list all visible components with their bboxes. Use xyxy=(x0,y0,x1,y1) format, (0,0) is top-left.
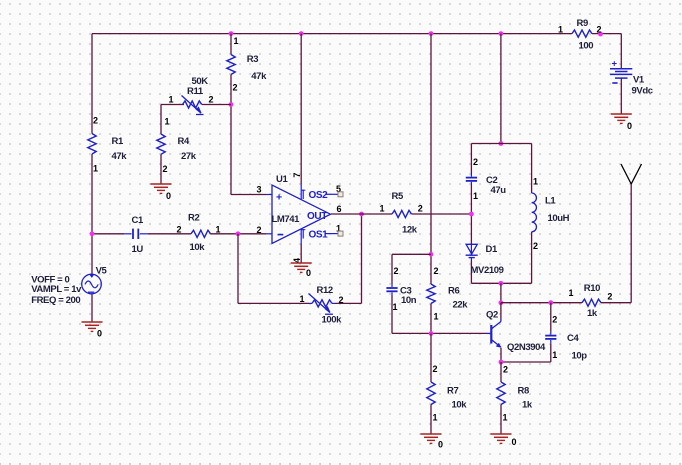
transistor Q2 xyxy=(487,319,501,348)
svg-text:0: 0 xyxy=(512,437,517,447)
svg-text:0: 0 xyxy=(97,329,102,339)
svg-text:2: 2 xyxy=(163,164,168,174)
svg-text:2: 2 xyxy=(93,116,98,126)
svg-text:1: 1 xyxy=(393,302,398,312)
svg-text:10k: 10k xyxy=(452,400,468,411)
wire R4 lower lead to ground xyxy=(160,154,162,184)
svg-text:1: 1 xyxy=(558,25,563,35)
svg-text:R4: R4 xyxy=(178,136,190,147)
resistor R3 xyxy=(227,55,235,75)
svg-text:2: 2 xyxy=(177,225,182,235)
label V1 value xyxy=(632,75,653,97)
svg-text:7: 7 xyxy=(292,173,302,178)
svg-text:1: 1 xyxy=(234,36,239,46)
wire C4 legs xyxy=(501,303,551,362)
svg-text:R2: R2 xyxy=(188,213,199,224)
svg-text:V1: V1 xyxy=(633,75,645,86)
svg-text:1: 1 xyxy=(473,191,478,201)
node junction top rail / R6 branch xyxy=(429,31,434,36)
svg-text:2: 2 xyxy=(552,315,557,325)
svg-text:FREQ = 200: FREQ = 200 xyxy=(31,295,80,306)
svg-text:2: 2 xyxy=(434,266,439,276)
label R4 value xyxy=(163,117,197,175)
label V5 parameters xyxy=(31,274,82,306)
label R5 value xyxy=(380,191,423,236)
wire op-amp pin 4 to ground xyxy=(300,229,302,263)
svg-text:+: + xyxy=(612,59,618,70)
resistor R9 xyxy=(572,30,592,37)
op-amp U1 LM741 xyxy=(266,185,338,244)
pin numbers U1 xyxy=(257,173,342,263)
ground op-amp xyxy=(291,263,312,278)
node junction R11 wiper net xyxy=(229,102,234,107)
svg-text:100: 100 xyxy=(579,41,594,52)
inductor L1 xyxy=(532,193,537,232)
node junction emitter / C4 / R8 xyxy=(499,360,504,365)
wire R6 branch vertical rail xyxy=(430,34,432,334)
svg-text:2: 2 xyxy=(233,83,238,93)
wire R7 leads xyxy=(430,333,432,434)
node junction tank bottom xyxy=(499,281,504,286)
label C3 value xyxy=(393,266,417,312)
svg-text:R11: R11 xyxy=(187,86,204,97)
svg-text:2: 2 xyxy=(473,157,478,167)
svg-text:1U: 1U xyxy=(132,244,144,255)
svg-text:27k: 27k xyxy=(181,151,197,162)
wire top power rail xyxy=(92,34,621,68)
svg-text:R12: R12 xyxy=(317,285,333,296)
wire V5 to ground xyxy=(91,295,93,323)
wire C3 top leg xyxy=(392,254,431,284)
source V5 sine xyxy=(82,274,102,294)
terminal square pin 1 xyxy=(338,231,343,236)
svg-text:OUT: OUT xyxy=(307,211,327,222)
node junction R9 pin2 xyxy=(598,32,603,37)
label C4 value xyxy=(552,315,587,362)
ground R4 xyxy=(151,184,172,201)
capacitor C3 xyxy=(386,284,397,296)
wire collector node to R10 xyxy=(501,302,631,304)
node junction C4 top xyxy=(548,300,553,305)
svg-text:OS2: OS2 xyxy=(309,190,329,201)
svg-text:R10: R10 xyxy=(584,283,600,294)
svg-text:2: 2 xyxy=(533,241,538,251)
wire R11 left lead to R4 xyxy=(161,105,231,135)
svg-text:1: 1 xyxy=(569,288,574,298)
svg-text:C1: C1 xyxy=(132,215,144,226)
resistor R4 xyxy=(157,134,165,154)
label R12 value xyxy=(300,285,344,326)
svg-text:1: 1 xyxy=(300,294,305,304)
capacitor C4 xyxy=(545,332,556,344)
node junction C3/R6 top xyxy=(429,252,434,257)
svg-text:10k: 10k xyxy=(190,242,206,253)
label L1 value xyxy=(533,177,570,252)
label R10 value xyxy=(569,283,613,319)
wire input net C1/R2 xyxy=(92,233,266,235)
node junction op-amp output xyxy=(359,212,364,217)
svg-text:Q2: Q2 xyxy=(486,310,498,321)
svg-text:1: 1 xyxy=(93,164,98,174)
potentiometer R12 xyxy=(309,294,336,315)
svg-text:1k: 1k xyxy=(587,308,598,319)
svg-text:R9: R9 xyxy=(577,18,588,29)
svg-text:LM741: LM741 xyxy=(272,214,301,225)
wire Q2 emitter to node xyxy=(500,348,502,362)
wire C3 bottom leg xyxy=(392,296,487,334)
wire op-amp pin 7 supply xyxy=(300,34,302,200)
node junction top rail / tank feed xyxy=(499,31,504,36)
svg-text:1: 1 xyxy=(433,413,438,423)
node junction top rail / R3 xyxy=(229,31,234,36)
svg-text:R3: R3 xyxy=(247,54,258,65)
svg-text:10p: 10p xyxy=(572,351,588,362)
svg-text:1: 1 xyxy=(380,204,385,214)
node junction R2 / feedback xyxy=(236,231,241,236)
label V5 xyxy=(96,266,108,277)
resistor R1 xyxy=(88,134,96,155)
svg-text:VAMPL = 1v: VAMPL = 1v xyxy=(31,284,82,295)
svg-text:R8: R8 xyxy=(518,386,529,397)
label R9 value xyxy=(558,18,602,52)
svg-text:+: + xyxy=(276,192,282,204)
svg-text:1: 1 xyxy=(169,95,174,105)
svg-text:1: 1 xyxy=(165,117,170,127)
label D1 value xyxy=(471,244,504,276)
svg-text:2: 2 xyxy=(433,364,438,374)
svg-text:1: 1 xyxy=(434,312,439,322)
node junction left rail / C1 xyxy=(90,231,95,236)
wire R3 branch down to op-amp pin 3 xyxy=(231,34,266,195)
battery V1 xyxy=(610,59,632,84)
wire Q2 collector xyxy=(500,303,502,319)
ground V5 xyxy=(82,322,103,339)
wire tank bottom to collector node xyxy=(500,283,502,302)
label R2 value xyxy=(177,213,221,254)
resistor R10 xyxy=(582,299,601,306)
node junction collector / R10 / C4 xyxy=(499,300,504,305)
svg-text:1: 1 xyxy=(503,413,508,423)
label Q2 value xyxy=(486,310,546,354)
svg-text:U1: U1 xyxy=(276,174,288,185)
svg-text:2: 2 xyxy=(209,95,214,105)
svg-text:2: 2 xyxy=(503,365,508,375)
node junction top rail / op-amp pin 7 xyxy=(299,31,304,36)
svg-text:10n: 10n xyxy=(401,295,417,306)
node junction R5 / varactor xyxy=(469,212,474,217)
svg-text:MV2109: MV2109 xyxy=(471,265,504,276)
label R1 value xyxy=(93,116,127,174)
wire tank feed from top rail xyxy=(500,34,502,144)
ground R8 xyxy=(491,434,517,447)
node junction tank top xyxy=(499,141,504,146)
capacitor C2 xyxy=(466,174,477,185)
label R7 value xyxy=(433,364,468,423)
svg-text:0: 0 xyxy=(166,191,171,201)
svg-text:22k: 22k xyxy=(453,300,469,311)
svg-text:R1: R1 xyxy=(112,136,124,147)
svg-text:9Vdc: 9Vdc xyxy=(632,86,653,97)
resistor R7 xyxy=(427,382,435,405)
label R6 value xyxy=(434,266,469,322)
svg-text:2: 2 xyxy=(607,292,612,302)
resistor R5 xyxy=(392,210,412,217)
svg-text:12k: 12k xyxy=(402,225,418,236)
label C1 value xyxy=(132,215,144,255)
svg-text:R5: R5 xyxy=(392,191,404,202)
svg-text:L1: L1 xyxy=(545,196,556,207)
potentiometer R11 xyxy=(182,96,204,115)
label C2 value xyxy=(473,157,506,201)
svg-text:47u: 47u xyxy=(491,185,507,196)
label R8 value xyxy=(503,365,533,423)
svg-text:R6: R6 xyxy=(448,286,459,297)
wire op-amp output to R5 xyxy=(331,213,471,215)
capacitor C1 xyxy=(124,229,148,239)
resistor R6 xyxy=(427,284,435,304)
svg-text:D1: D1 xyxy=(486,244,498,255)
wire feedback loop to R12 xyxy=(238,214,362,303)
svg-text:0: 0 xyxy=(438,440,443,450)
svg-text:2: 2 xyxy=(597,25,602,35)
svg-text:1k: 1k xyxy=(522,400,533,411)
svg-text:2: 2 xyxy=(339,295,344,305)
wire tank loop rectangle xyxy=(471,144,531,284)
svg-text:47k: 47k xyxy=(112,151,128,162)
label U1 LM741 xyxy=(272,174,329,240)
label R3 value xyxy=(233,36,268,93)
antenna xyxy=(621,164,642,184)
svg-text:OS1: OS1 xyxy=(309,229,329,240)
svg-text:V5: V5 xyxy=(96,266,108,277)
svg-text:47k: 47k xyxy=(251,71,267,82)
resistor R8 xyxy=(497,382,505,405)
diode D1 varactor xyxy=(466,244,478,261)
svg-text:0: 0 xyxy=(306,268,311,278)
svg-text:1: 1 xyxy=(552,350,557,360)
svg-text:6: 6 xyxy=(337,204,342,214)
svg-text:R7: R7 xyxy=(447,386,458,397)
svg-text:100k: 100k xyxy=(322,315,343,326)
svg-text:2: 2 xyxy=(418,204,423,214)
svg-text:2: 2 xyxy=(394,266,399,276)
wire left rail (R1 branch) xyxy=(91,34,93,276)
wire R8 leads xyxy=(500,362,502,434)
svg-text:0: 0 xyxy=(627,121,632,131)
wire battery to ground xyxy=(620,79,622,115)
terminal square pin 5 xyxy=(338,192,343,197)
label R11 value xyxy=(169,76,214,104)
svg-text:2: 2 xyxy=(257,225,262,235)
svg-text:1: 1 xyxy=(533,177,538,187)
node junction bottom rail / R7 xyxy=(429,331,434,336)
svg-text:Q2N3904: Q2N3904 xyxy=(507,342,546,353)
ground V1 xyxy=(611,114,632,131)
svg-text:C4: C4 xyxy=(567,333,579,344)
ground R7 xyxy=(421,434,444,450)
wire antenna feed xyxy=(630,184,632,303)
svg-text:3: 3 xyxy=(257,184,262,194)
svg-text:10uH: 10uH xyxy=(548,213,570,224)
resistor R2 xyxy=(191,230,211,237)
svg-text:1: 1 xyxy=(216,225,221,235)
